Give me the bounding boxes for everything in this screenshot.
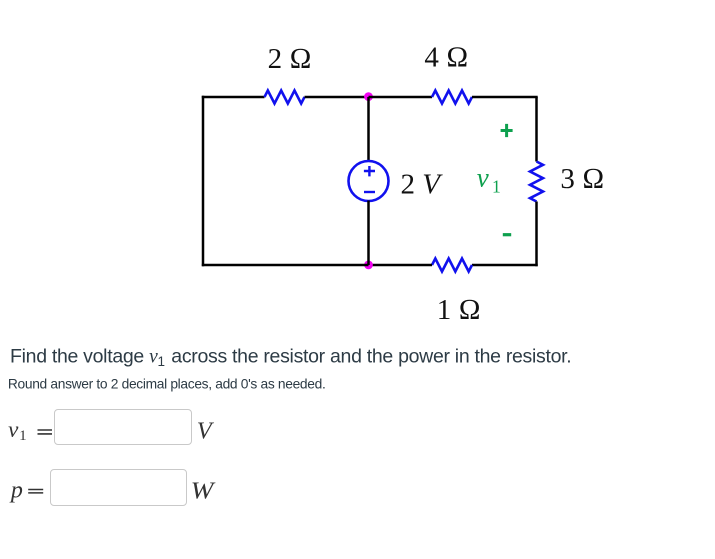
wire: top segment (node A to R2) [369, 96, 433, 99]
wire: top-right segment (R2 to corner) [472, 96, 538, 99]
wire: bottom segment (R3 to node B) [369, 264, 433, 267]
resistor R4 (3 ohm, vertical) [530, 162, 543, 202]
wire: right side lower (R4 to corner) [535, 202, 538, 267]
polarity plus sign (green) for v1 [501, 124, 513, 137]
wire: middle branch lower (source to node B) [367, 201, 370, 266]
resistor R3 (1 ohm) [432, 259, 472, 272]
polarity minus sign (green) for v1 [503, 233, 511, 236]
answer input box 1 [54, 409, 192, 445]
wire: bottom-right segment (corner to R3) [472, 264, 538, 267]
node A junction dot (top) [364, 92, 373, 101]
node B junction dot (bottom) [364, 261, 373, 270]
resistor R1 (2 ohm) [265, 91, 305, 104]
wire: right side upper (corner to R4) [535, 97, 538, 162]
wire: left vertical side [202, 96, 205, 266]
svg-text:3 Ω: 3 Ω [560, 163, 604, 195]
wire: top-left segment (corner to R1) [202, 96, 265, 99]
svg-text:v1: v1 [477, 162, 501, 196]
answer input box 2 [50, 469, 187, 506]
voltage source plus sign [364, 166, 375, 176]
wire: top middle segment (R1 to node A) [305, 96, 369, 99]
svg-text:v1: v1 [8, 417, 27, 444]
voltage source minus sign [364, 191, 375, 193]
svg-text:4 Ω: 4 Ω [424, 42, 468, 74]
wire: bottom-left segment (node B to corner) [202, 264, 369, 267]
svg-text:Find the voltage v1 across the: Find the voltage v1 across the resistor … [10, 346, 571, 370]
svg-text:2 V: 2 V [401, 169, 444, 201]
svg-text:W: W [191, 478, 216, 504]
svg-text:2 Ω: 2 Ω [268, 43, 312, 75]
svg-text:1 Ω: 1 Ω [437, 294, 481, 326]
svg-text:V: V [197, 418, 215, 445]
resistor R2 (4 ohm) [432, 91, 472, 104]
wire: middle branch upper (node A to source) [367, 97, 370, 162]
voltage source V1 circle [349, 161, 389, 201]
svg-text:p: p [9, 477, 23, 503]
svg-text:Round answer to 2 decimal plac: Round answer to 2 decimal places, add 0'… [8, 376, 326, 391]
